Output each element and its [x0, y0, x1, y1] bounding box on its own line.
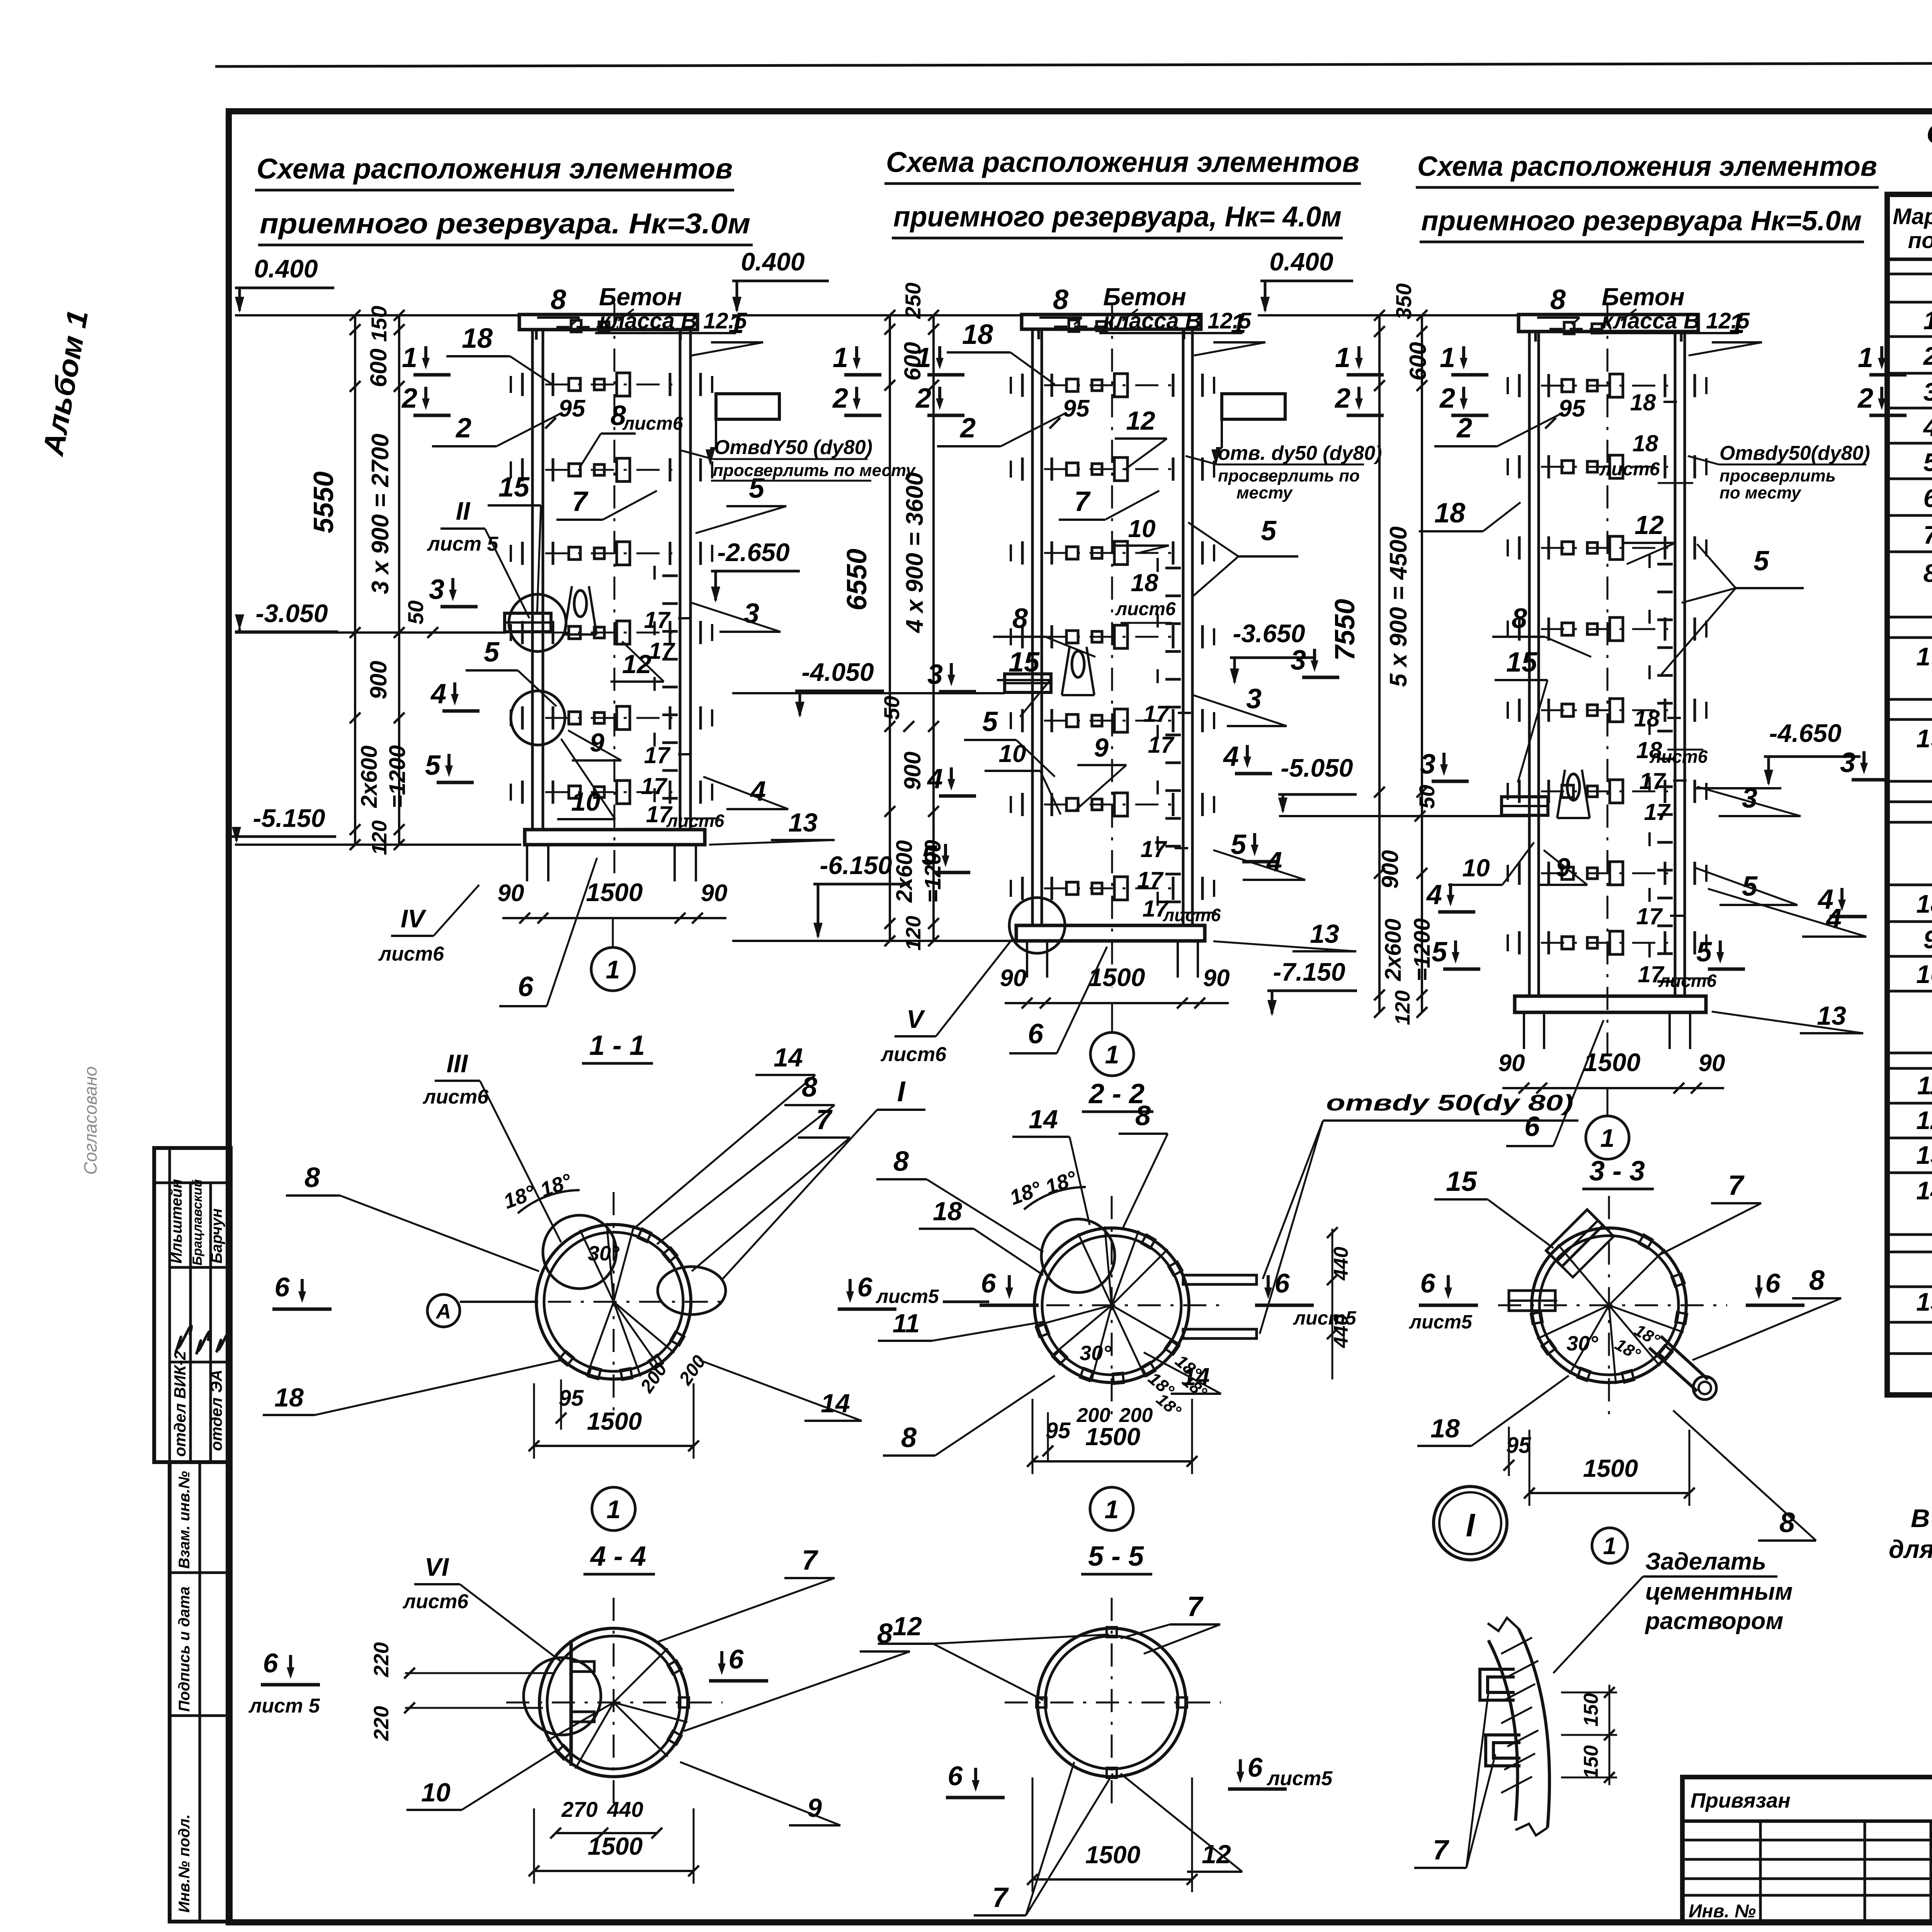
section 5-5 dim 1500	[1027, 1777, 1197, 1892]
svg-text:1500: 1500	[587, 1407, 642, 1435]
svg-text:350: 350	[1391, 283, 1416, 319]
svg-text:6: 6	[263, 1648, 279, 1678]
column 3 wall sleeve detail	[1502, 797, 1548, 815]
col3 right level line -4.650	[1694, 787, 1781, 789]
column 2 embed row 6	[1011, 793, 1214, 816]
callout 12 col2	[1115, 406, 1167, 470]
svg-text:15: 15	[1916, 1287, 1932, 1316]
svg-text:3: 3	[1420, 749, 1435, 780]
svg-text:-3.050: -3.050	[255, 599, 328, 628]
elevation -3.650	[1230, 619, 1316, 685]
svg-text:17: 17	[644, 742, 671, 768]
svg-text:150: 150	[1580, 1693, 1602, 1727]
callout 18 col3 left	[1419, 498, 1520, 531]
callout 1 col1	[692, 308, 763, 355]
note Отв dy50 col2	[1185, 442, 1382, 502]
section 5-5 title	[1081, 1541, 1152, 1574]
left stamp: approvals table	[154, 1148, 231, 1462]
svg-text:А: А	[435, 1300, 451, 1323]
svg-text:4: 4	[430, 679, 446, 709]
section 3-3 title	[1582, 1156, 1654, 1189]
callout 18 лист6 col3	[1599, 430, 1693, 483]
column 1 embed row 4	[511, 621, 712, 644]
callout 4 col1	[703, 776, 788, 809]
svg-text:30°: 30°	[1566, 1332, 1598, 1355]
svg-text:15: 15	[1446, 1166, 1477, 1197]
section 4-4 ring	[506, 1598, 723, 1808]
svg-text:13: 13	[1310, 919, 1339, 949]
label Подпись и дата	[176, 1587, 193, 1712]
label A circle	[427, 1294, 536, 1327]
svg-text:5: 5	[1696, 937, 1712, 968]
section 4-4 title	[583, 1541, 655, 1574]
title: Схема расположения элементов (col 1)	[255, 153, 753, 245]
svg-text:50: 50	[403, 600, 428, 624]
callout V лист6	[880, 939, 1012, 1066]
specification header row	[1887, 197, 1932, 259]
svg-text:лист6: лист6	[880, 1043, 947, 1066]
note Заделать цементным раствором	[1553, 1548, 1793, 1673]
margin pencil note	[80, 1066, 100, 1175]
svg-text:8: 8	[901, 1422, 917, 1453]
callout 2 col3	[1434, 413, 1563, 446]
section 1-1 node circle 1	[592, 1487, 635, 1531]
svg-text:8: 8	[1135, 1100, 1151, 1131]
svg-text:18: 18	[933, 1197, 962, 1226]
callout 6 col2	[1009, 947, 1107, 1053]
column 1 embed row 1	[511, 373, 712, 396]
column 2 embed row 1	[1011, 374, 1214, 397]
section 5-5 view arrow 6 right + лист5	[1228, 1752, 1333, 1790]
label Инв.№	[1689, 1901, 1756, 1922]
reservoir column 2 top cap	[1022, 315, 1201, 339]
svg-text:6: 6	[729, 1644, 744, 1674]
svg-text:Инв. №: Инв. №	[1689, 1901, 1756, 1922]
svg-text:17: 17	[649, 638, 675, 664]
callout 18 лист6 col3b	[1636, 737, 1708, 767]
svg-text:8: 8	[1809, 1265, 1825, 1296]
svg-text:2: 2	[401, 383, 417, 414]
callout 50 col2	[879, 696, 914, 732]
section 1-1 radial leaders	[580, 1223, 674, 1376]
approver name Брацлавский	[190, 1179, 205, 1265]
column 1 walls	[532, 330, 690, 830]
section 1-1 angle labels	[500, 1169, 619, 1265]
section 3-3 radials	[1537, 1245, 1684, 1384]
section 4-4 radials	[548, 1648, 687, 1769]
approver name Ильштейн	[168, 1179, 185, 1264]
svg-text:раствором: раствором	[1645, 1608, 1783, 1634]
table row 12	[1916, 1106, 1932, 1134]
section 3-3 callout 18	[1417, 1376, 1569, 1446]
svg-text:8: 8	[1779, 1507, 1795, 1538]
svg-text:2: 2	[1334, 383, 1350, 414]
section 3-3 dim 95	[1503, 1427, 1531, 1476]
callout 13 col1	[709, 808, 835, 845]
svg-text:17: 17	[1644, 799, 1671, 825]
column 3 cap embed plates	[1549, 322, 1611, 334]
callout 18 лист6 col2	[1115, 569, 1176, 623]
table row 4	[1923, 413, 1932, 441]
specification row lines	[1887, 274, 1932, 1354]
section 1-1 socket circle	[543, 1215, 616, 1289]
svg-text:220: 220	[370, 1642, 393, 1677]
svg-text:5: 5	[982, 706, 998, 737]
svg-text:10: 10	[1916, 960, 1932, 988]
svg-text:6: 6	[1524, 1111, 1540, 1142]
svg-text:8: 8	[1923, 559, 1932, 587]
svg-text:месту: месту	[1236, 483, 1293, 502]
column 3 embed row 8	[1508, 931, 1706, 954]
svg-text:5: 5	[1432, 937, 1447, 968]
svg-text:3: 3	[1742, 783, 1757, 814]
section 3-3 gland strip top-left	[1546, 1209, 1614, 1277]
footnote about glass fabric	[1889, 1504, 1932, 1563]
svg-text:6: 6	[518, 971, 534, 1002]
svg-text:18: 18	[462, 323, 493, 354]
section 1-1 dim 95	[556, 1379, 584, 1430]
svg-text:2: 2	[1857, 383, 1873, 414]
elevation -5.150	[232, 804, 336, 843]
elevation -5.050	[1278, 753, 1357, 814]
svg-text:14: 14	[1916, 1176, 1932, 1205]
pipe opening symbol col2	[1211, 394, 1285, 466]
svg-text:цементным: цементным	[1645, 1578, 1793, 1605]
svg-text:Схема расположения элементов: Схема расположения элементов	[1417, 151, 1877, 182]
svg-text:1: 1	[1923, 306, 1932, 335]
callout 5 col1 right	[696, 473, 786, 533]
section 2-2 callout 14	[1012, 1105, 1090, 1225]
svg-text:12: 12	[893, 1612, 922, 1641]
callout 95 col2	[1049, 395, 1090, 429]
column 2 walls	[1032, 329, 1192, 925]
department отдел ВИК-2	[171, 1351, 189, 1457]
section 5-5 embeds	[1036, 1627, 1187, 1778]
masonry detail dims 150 150	[1561, 1685, 1617, 1785]
callout 95 col3	[1545, 395, 1586, 429]
svg-text:900: 900	[1377, 850, 1403, 889]
callout 1 col2	[1194, 308, 1265, 355]
svg-text:12: 12	[1202, 1840, 1231, 1869]
section 3-3 callout 8 bottom	[1673, 1410, 1816, 1541]
svg-text:19: 19	[1916, 724, 1932, 753]
section 3-3 callout 15	[1434, 1166, 1553, 1248]
department отдел ЭА	[207, 1369, 225, 1451]
section 2-2 node circle 1	[1090, 1487, 1133, 1531]
section 1-1 title	[582, 1030, 653, 1063]
specification heading line 1	[1926, 117, 1932, 150]
column 1 funnel marker	[564, 586, 597, 634]
svg-text:6: 6	[275, 1272, 290, 1302]
section 1-1 callout 14	[634, 1043, 815, 1229]
svg-text:4: 4	[1223, 741, 1239, 772]
section 1-1 callout 8 right	[657, 1072, 835, 1244]
section marks 1,2 col1 right	[833, 342, 881, 375]
svg-text:Заделать: Заделать	[1645, 1548, 1766, 1575]
svg-text:17: 17	[1639, 768, 1666, 794]
table row 6	[1923, 484, 1932, 512]
svg-text:1: 1	[1600, 1124, 1615, 1152]
callout II лист5 col1	[427, 497, 529, 618]
label Взам. инв.№	[176, 1471, 193, 1569]
svg-text:95: 95	[1063, 395, 1090, 422]
svg-text:13: 13	[1916, 1141, 1932, 1169]
svg-text:лист5: лист5	[1266, 1767, 1333, 1790]
section 1-1 embeds on ring	[560, 1229, 684, 1380]
callout 17 labels col2	[1137, 701, 1221, 925]
svg-text:2: 2	[455, 413, 471, 444]
svg-text:Согласовано: Согласовано	[80, 1066, 100, 1175]
bottom dims col3	[1498, 1048, 1725, 1094]
callout 9 col3	[1539, 850, 1587, 885]
svg-text:2: 2	[959, 413, 976, 444]
section marks 1,2 col1 left	[402, 342, 451, 375]
svg-text:18: 18	[274, 1383, 304, 1412]
column 3 walls	[1529, 332, 1685, 996]
masonry detail: channel profiles	[1480, 1669, 1520, 1766]
callout 8 top col1	[537, 284, 580, 325]
svg-text:6: 6	[1275, 1268, 1290, 1298]
svg-text:8: 8	[1053, 284, 1068, 315]
callout 18 col3 mid2	[1634, 706, 1681, 731]
callout 13 col3	[1712, 1001, 1863, 1033]
svg-text:6: 6	[1923, 484, 1932, 512]
svg-text:9: 9	[1556, 853, 1570, 882]
table row 5	[1923, 448, 1932, 476]
table row 18	[1916, 889, 1932, 918]
column 1 lower detail circle	[511, 691, 565, 745]
section marks col3	[1440, 342, 1488, 375]
svg-text:440: 440	[1330, 1247, 1352, 1281]
section 3-3 angle labels	[1566, 1321, 1663, 1364]
svg-text:0.400: 0.400	[1269, 247, 1333, 276]
svg-text:17: 17	[1148, 732, 1175, 758]
svg-text:Схема расположения элементов: Схема расположения элементов	[257, 153, 733, 185]
svg-text:1: 1	[402, 342, 417, 373]
column 1 center axis	[614, 303, 616, 891]
column 1 embed row 2	[511, 458, 712, 481]
svg-text:1500: 1500	[588, 1832, 643, 1860]
section 2-2 view arrow 6 left	[980, 1268, 1039, 1305]
svg-text:2: 2	[915, 383, 931, 414]
svg-text:95: 95	[559, 395, 586, 422]
callout 3 col3	[1697, 783, 1801, 816]
elevation 0.400 col2 left	[732, 247, 829, 313]
section 3-3 ring	[1498, 1196, 1727, 1418]
svg-text:5: 5	[922, 840, 937, 871]
svg-text:8: 8	[893, 1146, 909, 1177]
section 5-5 extra leaders 12	[933, 1634, 1109, 1644]
svg-text:ОтвdY50 (dy80): ОтвdY50 (dy80)	[714, 436, 872, 459]
svg-text:1500: 1500	[1085, 1423, 1140, 1451]
column 2 funnel marker	[1062, 647, 1094, 695]
svg-text:В знаменателе приведен допо: В знаменателе приведен дополнительный ра…	[1911, 1504, 1932, 1532]
column 2 embed row 3	[1011, 541, 1214, 565]
elevation -4.050	[795, 658, 884, 718]
title: Схема расположения элементов (col 3)	[1416, 151, 1879, 242]
section 2-2 ring	[1001, 1196, 1225, 1418]
svg-text:50: 50	[879, 696, 904, 720]
section 2-2 callout 8 top	[1119, 1100, 1168, 1229]
svg-text:900: 900	[900, 752, 925, 790]
table row 13	[1916, 1141, 1932, 1169]
svg-text:3 - 3: 3 - 3	[1589, 1156, 1645, 1187]
svg-text:17: 17	[644, 607, 671, 633]
callout 8 mid col2	[993, 603, 1095, 657]
svg-text:лист6: лист6	[378, 943, 444, 965]
svg-text:3: 3	[429, 574, 444, 605]
section mark 5 col1	[425, 750, 474, 782]
svg-text:3: 3	[1246, 684, 1262, 714]
callout 3 col2	[1192, 684, 1287, 726]
section 5-5 extra leader 7	[1121, 1624, 1170, 1638]
column 3 center axis	[1607, 303, 1609, 1059]
svg-text:30°: 30°	[588, 1242, 619, 1265]
callout 18 col1	[446, 323, 553, 384]
column 1 level line top	[235, 314, 519, 316]
section 3-3 view arrow 6 left	[1409, 1268, 1478, 1333]
svg-text:4 x 900 = 3600: 4 x 900 = 3600	[901, 472, 928, 633]
callout 13 col2	[1213, 919, 1356, 951]
section 2-2 callout 11	[878, 1309, 1045, 1341]
svg-text:6: 6	[948, 1761, 963, 1791]
svg-text:10: 10	[421, 1778, 451, 1807]
callout 6 col3	[1506, 1020, 1604, 1146]
svg-text:1 - 1: 1 - 1	[589, 1030, 645, 1061]
column 2 bottom slab	[1016, 925, 1205, 941]
svg-text:-7.150: -7.150	[1273, 957, 1345, 986]
section 4-4 callout 9	[680, 1762, 840, 1825]
callout 8 mid col3	[1492, 603, 1591, 657]
section 2-2 callout 18	[919, 1197, 1043, 1275]
svg-text:15: 15	[498, 472, 530, 503]
svg-text:5: 5	[1753, 546, 1769, 577]
column 1 cap embed plates	[556, 320, 618, 332]
section mark 3 col1	[429, 574, 478, 607]
column 3 dimension chains	[1374, 310, 1427, 1018]
callout 10 col2	[1115, 515, 1169, 553]
callout 15 col3	[1495, 647, 1548, 782]
svg-text:5 x 900 = 4500: 5 x 900 = 4500	[1385, 526, 1412, 687]
svg-text:Бетон: Бетон	[1103, 283, 1186, 311]
label VI лист6	[402, 1553, 561, 1662]
svg-text:4: 4	[1923, 413, 1932, 441]
section 2-2 strip plates	[1183, 1275, 1257, 1338]
svg-text:2x600: 2x600	[1381, 918, 1406, 981]
callout 8 top col2	[1039, 284, 1082, 325]
svg-text:17: 17	[1137, 867, 1164, 893]
svg-text:9: 9	[1094, 733, 1109, 762]
svg-text:приемного резервуара. Нк=3.0: приемного резервуара. Нк=3.0м	[260, 207, 750, 240]
section 3-3 embeds	[1531, 1235, 1687, 1383]
column 1 right wall embed ladder	[655, 566, 678, 802]
elevation 0.400 col1 left	[235, 254, 334, 313]
section 5-5 ring	[1005, 1598, 1221, 1808]
column 2 embed row 7	[1011, 877, 1214, 900]
svg-text:лист6: лист6	[1599, 459, 1660, 480]
section 2-2 dim 1500	[1027, 1399, 1197, 1474]
column 3 embed row 5	[1508, 699, 1706, 722]
svg-text:90: 90	[1203, 965, 1230, 992]
svg-text:17: 17	[1636, 903, 1663, 929]
svg-text:900: 900	[366, 661, 391, 699]
title: Схема расположения элементов (col 2)	[884, 146, 1361, 238]
svg-text:Отвdy50(dy80): Отвdy50(dy80)	[1719, 442, 1870, 464]
label Инв.№ подл.	[176, 1814, 193, 1913]
column 1 embed row 6	[511, 781, 712, 804]
node circle 1 col3	[1586, 1089, 1629, 1159]
callout 7 col1	[556, 486, 657, 520]
svg-text:6: 6	[981, 1268, 997, 1298]
section 2-2 callout 8 bottom	[883, 1376, 1055, 1456]
elevation -4.650	[1764, 719, 1861, 786]
svg-text:1: 1	[606, 955, 620, 984]
callout 17 labels col3	[1636, 768, 1717, 991]
callout 2 col2	[937, 413, 1066, 446]
section 1-1 callout 18	[263, 1360, 561, 1415]
svg-text:13: 13	[1817, 1001, 1846, 1031]
svg-text:7: 7	[572, 486, 588, 517]
section 2-2 dim 440 440	[1327, 1227, 1352, 1379]
svg-text:=1200: =1200	[1410, 918, 1435, 981]
column 2 embed row 2	[1011, 457, 1214, 481]
section 5-5 callout 12 top	[878, 1612, 1043, 1700]
svg-text:отв. dy50 (dy80): отв. dy50 (dy80)	[1218, 442, 1382, 464]
level line -5.050	[1279, 815, 1419, 817]
svg-text:лист6: лист6	[422, 1086, 489, 1108]
label III лист6	[422, 1049, 561, 1242]
svg-text:18: 18	[1916, 889, 1932, 918]
svg-text:95: 95	[1046, 1418, 1071, 1443]
elevation 0.400 col3 left	[1260, 247, 1353, 313]
section 2-2 angle labels	[1007, 1167, 1205, 1401]
svg-text:2x600: 2x600	[357, 745, 382, 808]
svg-text:120: 120	[1391, 990, 1414, 1025]
svg-text:1: 1	[1603, 1533, 1616, 1560]
section 3-3 callout 8 right	[1692, 1265, 1841, 1360]
svg-text:2: 2	[1923, 342, 1932, 370]
note Бетон класса В12.5 col2	[1099, 283, 1252, 333]
section 4-4 dims 220 220	[370, 1642, 553, 1741]
svg-text:7550: 7550	[1330, 599, 1361, 661]
table row 17: Швеллер	[1916, 641, 1932, 699]
svg-text:7: 7	[802, 1545, 818, 1576]
svg-text:17: 17	[1143, 701, 1170, 727]
svg-text:1: 1	[833, 342, 848, 373]
svg-text:90: 90	[1000, 965, 1027, 992]
svg-text:отдел ВИК-2: отдел ВИК-2	[171, 1351, 189, 1457]
table row 9	[1923, 925, 1932, 954]
svg-text:9: 9	[590, 728, 604, 757]
callout 50 col3	[1415, 785, 1439, 821]
svg-text:2: 2	[832, 383, 848, 414]
column 1 bottom slab	[525, 830, 705, 845]
svg-text:класса В 12.5: класса В 12.5	[599, 308, 747, 333]
callout 17 labels col1	[641, 607, 724, 831]
section 3-3 callout 7	[1658, 1170, 1761, 1256]
svg-text:10: 10	[1128, 515, 1155, 543]
svg-text:8: 8	[1512, 603, 1527, 634]
section 3-3 node circle 1	[1592, 1528, 1628, 1563]
svg-text:4: 4	[1266, 847, 1282, 878]
svg-text:6: 6	[857, 1272, 873, 1302]
column 1 level line bottom	[235, 844, 521, 846]
svg-text:просверлить по: просверлить по	[1218, 466, 1360, 485]
svg-text:приемного резервуара, Нк= 4.: приемного резервуара, Нк= 4.0м	[893, 201, 1342, 233]
table row 15: Сальник	[1916, 1287, 1932, 1316]
section 1-1 dim 200 marks	[636, 1352, 710, 1397]
svg-text:12: 12	[1634, 510, 1664, 540]
